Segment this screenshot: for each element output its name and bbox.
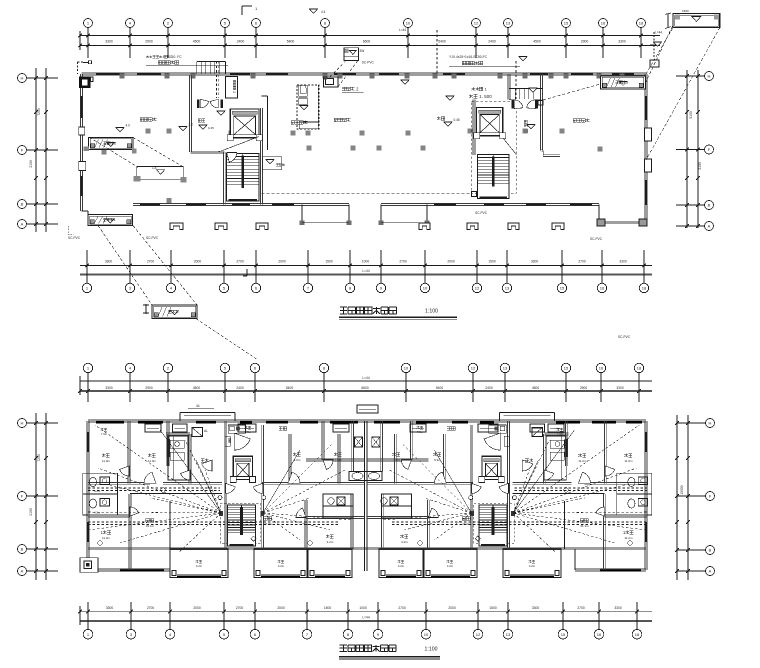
svg-text:A: A [708,224,711,229]
plan1 core2 double door [512,100,514,109]
svg-text:1500: 1500 [489,606,497,610]
plan1 bottom wall right step [598,205,600,223]
plan1 building left wall [80,74,82,211]
plan2 center top box above wall [357,405,378,413]
plan1 bottom dimension line upper [80,264,652,266]
plan2 core1 shaft mark [225,436,230,446]
plan2 wiring dashed rays core2 left [424,498,471,513]
svg-text:6600: 6600 [363,40,371,44]
plan1 bottom axis circle 8 [345,283,354,292]
svg-text:SC-PVC: SC-PVC [146,236,159,240]
plan1 dashed topcenter B [338,61,358,88]
svg-text:11.0m: 11.0m [148,459,157,463]
svg-text:16: 16 [599,366,604,371]
svg-text:A: A [21,222,24,227]
svg-text:4: 4 [163,55,165,59]
svg-text:A: A [709,569,712,574]
plan1 bottom grid line 13 [506,250,508,283]
plan1 right wall window marks [645,96,647,120]
plan2 closet boxes top [145,424,161,432]
svg-text:2700: 2700 [577,606,585,610]
plan2 solid conduit core2 b [513,430,574,513]
plan2 bottom grid line [169,602,171,629]
svg-text:7.9m: 7.9m [101,432,108,436]
svg-text:13: 13 [503,366,508,371]
plan1 core1 outer right line [267,96,269,150]
svg-text:0.45: 0.45 [208,126,214,130]
svg-text:27.7m: 27.7m [264,522,273,526]
plan1 annotation cluster A [146,55,149,58]
plan2 top axis circle 12 [468,363,477,372]
svg-text:4500: 4500 [532,386,540,390]
plan1 bottom wall window marks [140,204,160,206]
svg-text:5400: 5400 [286,386,294,390]
plan2 bottom axis circle 6 [250,629,260,639]
plan2 top axis circle 18 [634,363,643,372]
plan2 bathroom fixtures left wing [89,477,96,486]
plan1 bottom grid line 12 [476,250,478,283]
svg-text:10: 10 [423,286,428,291]
plan1 bracket near bottom dim [246,269,248,276]
plan1 top dimension line upper [80,35,660,37]
plan2 bottom-left corner box [80,558,98,572]
svg-text:11.2m: 11.2m [102,536,111,540]
plan2 bottom axis circle 8 [343,629,353,639]
svg-text:L=44: L=44 [655,31,662,35]
plan1 core2 door leaf B [527,100,536,109]
svg-text:2900: 2900 [580,386,588,390]
svg-text:3300: 3300 [614,606,622,610]
plan2 top wall [88,419,646,421]
plan2 party-side wall right [380,421,382,472]
plan1 top grid line 2 [167,28,169,59]
svg-text:16: 16 [600,286,605,291]
plan2 core1 walls [224,421,226,549]
plan1 left dim inner [45,68,47,232]
plan1 core2 right wall [540,74,542,150]
plan2 AL distribution box left [192,428,203,437]
plan2 interior door arcs [144,472,156,483]
plan2 top axis circle 13 [500,363,509,372]
plan1 core1 stair door arc [227,153,237,163]
plan2 right kitchen counter [546,436,566,480]
plan2 solid conduit core1 c [263,450,300,513]
plan1 core2 door leaf A [514,100,523,109]
plan2 small top room labels [100,428,103,431]
svg-text:0.45: 0.45 [454,118,460,122]
plan2 left dim outer [35,413,37,580]
plan2 bottom axis circle 3 [126,629,136,639]
svg-text:13: 13 [506,21,511,26]
svg-text:5400: 5400 [436,386,444,390]
plan2 right dim inner [687,415,689,580]
plan1 top-right detail box [673,13,720,27]
svg-text:L=44: L=44 [399,28,406,32]
plan2 title underline [339,656,440,658]
svg-text:4.2m: 4.2m [327,540,334,544]
svg-text:16: 16 [597,632,602,637]
plan1 top corner bracket mark [241,6,243,15]
plan1 bottom axis circle 18 [639,283,648,292]
plan2 interior walls left unit [127,421,129,483]
plan2 top window marks [96,420,124,422]
svg-text:2700: 2700 [236,260,244,264]
plan1 title underline [339,316,457,318]
plan2 bottom axis circle 5 [219,629,229,639]
svg-text:5100: 5100 [689,111,693,119]
svg-text:2000: 2000 [277,606,285,610]
svg-text:4.0: 4.0 [126,124,131,128]
plan1 core1 shaft label [232,80,236,93]
svg-text:5400: 5400 [438,40,446,44]
plan2 bottom axis circle 18 [632,629,642,639]
plan1 dashed vertical axis10 [436,30,438,74]
svg-text:1500: 1500 [325,260,333,264]
plan2 solid conduit core1 b [160,430,221,513]
plan1 top axis circle 5 [221,19,230,28]
plan1 box1 right block [132,149,137,154]
plan2 core2 wiring boxes [511,511,515,516]
svg-text:1.8: 1.8 [152,166,157,170]
svg-text:L=44: L=44 [362,616,369,620]
svg-text:18: 18 [635,632,640,637]
plan2 bottom grid line [507,602,509,629]
plan1 building right wall [644,74,646,223]
plan1 bottom right column2 [639,219,647,226]
svg-text:2: 2 [114,142,116,146]
plan1 dashed leaders [90,137,138,167]
svg-text:10: 10 [424,632,429,637]
plan1 dashed to top-right detail A [646,28,673,74]
plan1 dashed core2 to lamp3 box [543,84,601,100]
svg-text:4.2m: 4.2m [401,540,408,544]
plan2 core1 elevator [230,456,255,482]
svg-text:6600: 6600 [361,386,369,390]
plan1 core2 dashed incoming [515,61,517,99]
plan1 small box below top-center detail [323,77,338,87]
svg-text:B: B [21,202,24,207]
svg-text:7.9m: 7.9m [393,458,400,462]
plan2 left kitchen fixtures [170,440,184,448]
plan2 core2 stair diamond [475,536,480,541]
plan2 center-right bathroom [381,494,411,518]
plan2 balcony labels [196,560,199,563]
plan2 bottom grid line [425,602,427,629]
svg-text:SC-PVC: SC-PVC [618,335,631,339]
plan1 bottom grid line 16 [601,250,603,283]
svg-text:1500: 1500 [488,260,496,264]
plan1 top grid line 12 [475,28,477,59]
plan2 core2 shaft mark [504,436,509,446]
plan2 core1 stair dashed box [220,504,260,543]
svg-text:4500: 4500 [533,40,541,44]
plan2 bottom grid line [562,602,564,629]
svg-text:1000: 1000 [359,606,367,610]
plan2 bottom grid line [477,602,479,629]
plan2 top grid line [129,373,131,402]
plan2 room labels [102,454,106,457]
plan2 top axis circle 2 [163,363,172,372]
plan1 top axis circle 6 [252,19,261,28]
plan2 bottom wall main [88,547,646,549]
plan1 detail band 2 [137,165,183,167]
plan2 top grid line [224,373,226,402]
plan1 dashed topcenter A [330,61,346,77]
plan1 long dashed corridor line [262,192,472,194]
plan2 top axis circle 8 [319,363,328,372]
plan1 top grid line 6 [255,28,257,59]
plan1 right dim inner [697,70,699,228]
plan1 room labels [140,118,144,121]
plan1 top grid line 18 [640,28,642,59]
plan1 title text [340,307,347,314]
plan2 top axis circle 15 [561,363,570,372]
svg-text:2100: 2100 [698,162,702,170]
plan1 right riser marks [650,60,659,67]
svg-text:L=44: L=44 [362,376,369,380]
plan1 bottom grid line 15 [561,250,563,283]
plan2 top grid line [254,373,256,402]
svg-text:2400: 2400 [485,386,493,390]
svg-text:13: 13 [506,632,511,637]
plan2 top grid line [323,373,325,402]
plan2 wiring dashed rays core2 right [513,425,639,513]
plan1 top-left dashed bracket [77,62,79,74]
plan2 core2 elevator [479,456,504,482]
plan1 top axis circle 8 [321,19,330,28]
plan1 right axis circles [705,72,714,81]
plan2 top grid line [565,373,567,402]
plan1 bottom grid line 3 [129,250,131,283]
plan1 mid shaft stack [297,85,319,129]
svg-text:4.2m: 4.2m [196,564,203,568]
plan2 left bathroom block [83,473,118,515]
plan2 bottom grid line [254,602,256,629]
svg-text:15: 15 [561,632,566,637]
plan1 portico columns [301,205,303,223]
svg-text:A: A [21,569,24,574]
svg-text:2000: 2000 [447,260,455,264]
svg-text:2: 2 [232,91,236,93]
plan2 top axis circle 1 [83,363,92,372]
svg-text:12: 12 [476,632,481,637]
svg-text:2400: 2400 [488,40,496,44]
plan1 bottom grid line 9 [380,250,382,283]
plan2 side wall window marks [87,432,89,452]
plan2 long horizontal dashed [88,521,340,523]
plan1 bottom axis circle 1 [82,283,91,292]
svg-text:3300: 3300 [106,606,114,610]
plan1 bottom grid line 1 [86,250,88,283]
svg-text:SC-PVC: SC-PVC [362,61,375,65]
plan2 bottom axis circle 13 [503,629,513,639]
plan2 top bump right [499,411,554,413]
svg-text:4.4: 4.4 [321,10,326,14]
plan1 core1 elevator [227,109,262,141]
svg-text:3300: 3300 [532,606,540,610]
plan1 top grid line 4 [129,28,131,59]
svg-text:B: B [21,547,24,552]
plan2 bottom axis circle 1 [83,629,93,639]
plan2 left kitchen counter [168,436,188,480]
svg-text:10: 10 [404,366,409,371]
plan1 top axis circle 12 [472,19,481,28]
plan1 building top wall [82,72,647,74]
svg-text:12: 12 [474,21,479,26]
plan1 top grid line 15 [565,28,567,59]
plan1 core1 double door [197,99,199,108]
plan2 left dim inner [45,413,47,580]
svg-text:1:100: 1:100 [425,647,438,653]
plan2 wall x441 [443,434,445,483]
plan1 top-center detail box [344,48,359,61]
plan2 top axis circle 5 [220,363,229,372]
plan2 bottom grid line [223,602,225,629]
plan2 solid conduit core1 a [196,460,221,513]
plan1 column squares top row [120,74,125,79]
plan2 top dimension line lower [80,390,652,392]
plan1 core1 canopy above top wall [196,62,198,75]
plan2 top grid line [405,373,407,402]
plan1 left wall jog boxes [79,127,85,135]
svg-text:2400: 2400 [236,386,244,390]
plan1 top axis circle 18 [637,19,646,28]
svg-text:2100: 2100 [29,508,33,516]
svg-text:18: 18 [637,366,642,371]
plan2 core1 lobby door arc [234,433,250,450]
svg-text:11.0m: 11.0m [578,459,587,463]
plan2 solid conduit core2 c [434,450,471,513]
svg-text:18: 18 [642,286,647,291]
svg-text:31.1m: 31.1m [580,524,589,528]
plan1 left wall window marks [81,96,83,118]
svg-text:1500: 1500 [682,9,689,13]
plan1 top axis circle 2 [164,19,173,28]
plan2 top grid line [472,373,474,402]
svg-text:13: 13 [505,286,510,291]
plan2 core2 walls [507,421,509,549]
plan1 bottom axis circle 7 [303,283,312,292]
plan1 core1 front room label [198,119,201,122]
plan1 bottom axis circle 3 [125,283,134,292]
plan1 top wall window marks [96,73,120,75]
plan1 bottom axis circle 16 [597,283,606,292]
plan2 bathroom fixtures right wing [628,477,635,486]
plan2 wiring junction circles [218,496,222,500]
plan2 bottom grid line [87,602,89,629]
plan2 party flue boxes [355,437,363,447]
svg-text:H: H [21,76,24,81]
svg-text:3300: 3300 [105,40,113,44]
svg-text:2700: 2700 [578,260,586,264]
plan2 right wall [644,421,646,570]
plan1 bottom axis circle 15 [557,283,566,292]
plan1 top dimension line lower [80,44,660,46]
plan2 bottom axis circle 4 [165,629,175,639]
plan1 bottom axis circle 9 [376,283,385,292]
svg-text:SC-PVC: SC-PVC [590,237,603,241]
plan2 core2 lobby door arc [484,433,500,450]
plan2 top dimension line upper [80,380,652,382]
svg-text:1:100: 1:100 [425,309,438,315]
plan2 bottom axis circle 12 [473,629,483,639]
plan2 bottom axis circle 16 [594,629,604,639]
plan1 bottom grid line 10 [424,250,426,283]
plan1 bottom detail dim mark [145,304,147,314]
plan2 bottom right section [575,568,646,570]
svg-text:31.1m: 31.1m [146,524,155,528]
plan2 balcony bays [170,549,228,578]
plan2 top grid line [600,373,602,402]
svg-text:3300: 3300 [531,260,539,264]
plan2 bottom grid line [130,602,132,629]
plan1 core2 corner dash mark [472,192,477,197]
plan1 detail box corridor-lamp-2 [89,137,133,149]
svg-text:4.2m: 4.2m [278,564,285,568]
plan2 core2 stair dashed box [474,504,514,543]
plan2 center party wall [364,421,366,571]
plan1 dashed to top-right detail B [646,28,720,160]
svg-text:7.9m: 7.9m [335,458,342,462]
plan2 door marks small diamonds [160,487,166,493]
plan1 portico lower edge 1 [302,222,349,224]
plan2 core2 stairs [479,505,507,546]
plan1 box1 left block [84,147,90,151]
plan2 top axis circle 4 [125,363,134,372]
plan1 core1 right wall [260,108,262,205]
svg-text:2900: 2900 [145,40,153,44]
svg-text:.: . [482,94,483,99]
svg-text:11.9m: 11.9m [624,459,633,463]
plan2 wiring dashed rays core1 right [263,498,310,513]
plan2 bottom grid line [347,602,349,629]
svg-text:L=44: L=44 [362,269,369,273]
plan2 core1 stair diamond [251,536,256,541]
plan1 bottom grid line 8 [349,250,351,283]
svg-text:3300: 3300 [618,40,626,44]
svg-text:7200: 7200 [37,108,41,116]
svg-text:5400: 5400 [287,40,295,44]
svg-text:11.2m: 11.2m [624,536,633,540]
plan2 interior walls right unit [604,421,606,483]
svg-text:15: 15 [560,286,565,291]
plan1 bottom right column1 [597,219,605,226]
plan2 center-left bathroom [323,494,353,518]
plan1 core1 flight diagonal [218,137,259,153]
plan1 bottom grid line 5 [223,250,225,283]
plan1 top axis circle 4 [126,19,135,28]
svg-text:2700: 2700 [147,606,155,610]
svg-text:9.9m: 9.9m [294,458,301,462]
plan1 column squares mid [167,129,172,134]
plan1 small box label [342,87,346,90]
plan1 bottom axis circle 13 [502,283,511,292]
plan1 top axis circle 1 [84,19,93,28]
svg-text:15: 15 [564,21,569,26]
plan1 top grid line 16 [602,28,604,59]
plan1 bottom wall left [133,203,302,205]
plan1 core2 stairs [478,155,509,199]
svg-text:3W: 3W [360,49,365,53]
svg-text:2400: 2400 [237,40,245,44]
plan2 top axis circle 10 [401,363,410,372]
plan2 core1 wiring boxes [219,511,223,516]
svg-text:H: H [708,74,711,79]
plan1 bottom grid line 4 [170,250,172,283]
plan2 bottom window marks end sections [120,569,164,571]
plan1 left dim outer [35,68,37,232]
plan1 core2 entry steps [514,89,516,100]
